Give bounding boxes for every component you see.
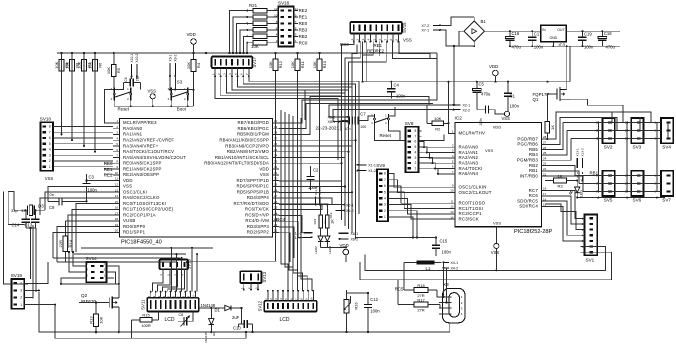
svg-text:SV10: SV10 xyxy=(40,116,52,121)
svg-text:SV3: SV3 xyxy=(633,144,642,149)
junction dots R16/C12 xyxy=(345,292,369,333)
svg-text:C8: C8 xyxy=(179,313,184,317)
svg-text:SV8: SV8 xyxy=(405,121,414,126)
svg-text:1: 1 xyxy=(415,166,417,170)
junction dots power rails xyxy=(473,30,603,47)
node X1-1 X1-2 terminal pins xyxy=(357,164,376,174)
svg-text:22R: 22R xyxy=(58,240,63,247)
svg-text:SV17: SV17 xyxy=(252,56,257,67)
svg-text:16: 16 xyxy=(543,197,547,201)
diode D1 1N4148 xyxy=(199,303,242,313)
svg-text:4: 4 xyxy=(49,148,51,152)
svg-text:PGC/RB6: PGC/RB6 xyxy=(517,142,538,147)
wire SV9 to IC2 lower pins xyxy=(356,174,455,238)
svg-text:X6-2: X6-2 xyxy=(351,238,359,242)
svg-text:2uF: 2uF xyxy=(232,315,240,320)
svg-text:10K: 10K xyxy=(186,62,191,69)
potentiometer R16 xyxy=(344,290,359,322)
supply VDD symbol bottom-mid xyxy=(340,243,349,262)
svg-text:22: 22 xyxy=(543,167,547,171)
capacitor C9 100n xyxy=(48,192,70,210)
wire SV14 nets xyxy=(61,252,119,284)
svg-text:SDI/RC4: SDI/RC4 xyxy=(519,204,538,209)
wire IC2 RB bus staircase xyxy=(548,99,651,191)
svg-text:22-23-2021: 22-23-2021 xyxy=(316,126,340,131)
node X4-1 X4-2 terminal pins xyxy=(443,261,459,271)
svg-text:10K: 10K xyxy=(268,61,273,68)
svg-text:PGD/RB7: PGD/RB7 xyxy=(517,136,538,141)
svg-text:16: 16 xyxy=(115,206,119,210)
svg-text:100n: 100n xyxy=(370,309,380,314)
node R22 R19 designators xyxy=(313,212,333,224)
wire IC2 RC to SV1 xyxy=(548,191,581,241)
svg-text:100: 100 xyxy=(360,125,366,129)
svg-text:RD2/SPP2: RD2/SPP2 xyxy=(247,230,270,235)
wire SV18 to SV11 links xyxy=(152,277,184,292)
resistor R11 10K xyxy=(290,53,305,255)
svg-text:X7-2: X7-2 xyxy=(422,24,430,28)
svg-text:RB5: RB5 xyxy=(529,147,538,152)
svg-text:7: 7 xyxy=(415,134,417,138)
svg-text:SV2: SV2 xyxy=(604,144,613,149)
junction dots SV8 bus xyxy=(412,146,439,238)
svg-text:100R: 100R xyxy=(141,323,151,328)
connector SV3 xyxy=(625,118,644,149)
svg-text:RA0/AN0: RA0/AN0 xyxy=(459,145,479,150)
svg-text:X1-1: X1-1 xyxy=(368,164,376,168)
wire regulator gnd to mid column xyxy=(569,46,571,81)
svg-text:VSS: VSS xyxy=(45,176,54,181)
svg-text:10K: 10K xyxy=(98,316,103,323)
inductor L1 xyxy=(404,260,442,271)
svg-text:10K: 10K xyxy=(290,61,295,68)
wire IC1 lower-left nets xyxy=(48,174,113,262)
connector SV16 xyxy=(274,1,308,47)
junction dots switch bus xyxy=(130,105,189,107)
svg-text:X13-1: X13-1 xyxy=(576,148,580,157)
node X2-1 X2-2 terminal pins xyxy=(453,104,471,113)
svg-text:RC6: RC6 xyxy=(529,193,539,198)
svg-text:PGM/RB3: PGM/RB3 xyxy=(517,158,539,163)
svg-text:VSS: VSS xyxy=(260,172,269,177)
svg-text:RD4/SPP4: RD4/SPP4 xyxy=(247,195,270,200)
svg-text:RA4/T0CKI: RA4/T0CKI xyxy=(459,166,483,171)
svg-text:RC2/CCP1: RC2/CCP1 xyxy=(459,211,483,216)
node X8-1 X8-2 terminal pins xyxy=(328,115,349,124)
capacitor C3 100n xyxy=(82,174,97,196)
svg-text:1: 1 xyxy=(384,215,386,219)
svg-text:RC5: RC5 xyxy=(395,287,404,292)
svg-text:RC7/RX/DT/SDO: RC7/RX/DT/SDO xyxy=(233,201,269,206)
op-amp U1: microcontroller IC1 PIC18F4550-40 DIP body xyxy=(113,119,279,246)
connector SV17 xyxy=(212,56,257,68)
svg-text:27R: 27R xyxy=(417,308,424,313)
svg-text:RB1: RB1 xyxy=(590,171,599,176)
svg-text:C6: C6 xyxy=(124,77,128,81)
svg-text:RB1: RB1 xyxy=(529,168,538,173)
wire SV15 fanout xyxy=(342,42,438,93)
svg-text:RB3/AN9/CCP2/VPO: RB3/AN9/CCP2/VPO xyxy=(225,143,269,148)
junction dots Q2 xyxy=(95,301,120,333)
svg-text:B1: B1 xyxy=(481,19,487,24)
wire R2 nets xyxy=(449,82,455,134)
svg-text:RC0/T1OSO: RC0/T1OSO xyxy=(459,201,486,206)
svg-text:Q1: Q1 xyxy=(533,97,539,102)
capacitor C20 100n xyxy=(477,106,495,126)
diode bridge B1 xyxy=(459,17,489,46)
svg-text:20: 20 xyxy=(115,229,119,233)
svg-text:RE0/AN5/CK1SPP: RE0/AN5/CK1SPP xyxy=(123,161,162,166)
svg-text:SV15: SV15 xyxy=(402,22,407,33)
junction dots mid bundle xyxy=(340,139,356,248)
svg-text:LCD: LCD xyxy=(280,317,290,323)
svg-text:2: 2 xyxy=(415,161,417,165)
wire left edge runs xyxy=(4,191,49,298)
supply VDD symbol mid-right xyxy=(489,64,498,82)
svg-text:RC6/TX/CK: RC6/TX/CK xyxy=(245,207,269,212)
svg-text:X10-2: X10-2 xyxy=(135,54,139,63)
svg-text:2: 2 xyxy=(20,296,22,300)
svg-text:C9: C9 xyxy=(49,205,55,210)
svg-text:PIC18f252-28P: PIC18f252-28P xyxy=(514,229,553,235)
svg-text:SV1: SV1 xyxy=(586,258,595,263)
svg-text:RB4: RB4 xyxy=(529,152,538,157)
svg-text:X13-2: X13-2 xyxy=(581,148,585,157)
connector SV7 xyxy=(654,171,673,203)
resistor R3 1K xyxy=(548,173,570,188)
wire X9 to R4 bottom row xyxy=(170,76,194,90)
capacitor C13 33p xyxy=(21,208,40,228)
capacitor C2 100n xyxy=(306,166,319,190)
node X9-1 X9-2 terminal pins xyxy=(168,54,177,77)
junction dot Q1 drain rail xyxy=(566,45,568,47)
wire SV19 fanout xyxy=(28,225,55,305)
svg-text:5: 5 xyxy=(384,190,386,194)
connector SV2 xyxy=(596,118,615,149)
svg-text:18: 18 xyxy=(115,217,119,221)
svg-text:RA6/OSC2/CLKO: RA6/OSC2/CLKO xyxy=(123,195,160,200)
svg-text:RC4/D-/VM: RC4/D-/VM xyxy=(245,218,269,223)
svg-text:RB6/KBI2/PGC: RB6/KBI2/PGC xyxy=(237,126,269,131)
svg-text:R22: R22 xyxy=(313,218,317,224)
svg-text:R10: R10 xyxy=(322,60,327,68)
voltage regulator IC3 xyxy=(541,25,567,47)
svg-text:R21: R21 xyxy=(249,3,258,8)
wire RE stubs xyxy=(104,163,113,175)
junction dots crystal xyxy=(25,209,37,229)
capacitor C12 100n xyxy=(364,297,380,315)
svg-text:R18: R18 xyxy=(417,283,425,288)
svg-text:10K: 10K xyxy=(76,61,81,68)
junction dots R2 xyxy=(448,81,450,125)
svg-text:RE1: RE1 xyxy=(299,15,308,20)
capacitor C21 10n xyxy=(338,117,352,131)
diode D2 1N4148 xyxy=(204,308,214,343)
svg-text:RA5/AN4/SSVHLVDIN/C2OUT: RA5/AN4/SSVHLVDIN/C2OUT xyxy=(123,155,186,160)
svg-text:R11: R11 xyxy=(300,60,305,68)
svg-text:C16: C16 xyxy=(512,31,520,36)
svg-text:SV16: SV16 xyxy=(278,1,290,6)
wire trimmer net xyxy=(178,312,193,322)
wire IC1 RB rows to right bundle xyxy=(279,53,437,262)
svg-text:RC0: RC0 xyxy=(299,40,308,45)
svg-text:11: 11 xyxy=(115,177,118,181)
node X6-1 X6-2 terminal pins xyxy=(339,232,359,242)
wire verticals to SV11 xyxy=(171,248,197,292)
svg-text:IC3: IC3 xyxy=(559,43,566,48)
junction dots SV14 xyxy=(60,251,120,285)
svg-text:OSC2/CLKOUT: OSC2/CLKOUT xyxy=(459,190,492,195)
wire regulator output xyxy=(566,30,620,32)
svg-text:VDD: VDD xyxy=(259,166,269,171)
svg-text:RB7/KBI3/PGD: RB7/KBI3/PGD xyxy=(237,120,269,125)
svg-text:X11-2: X11-2 xyxy=(318,187,322,195)
node X12-1 X12-2 terminal pins xyxy=(292,231,312,240)
svg-text:470u: 470u xyxy=(481,92,491,97)
capacitor C15 100n xyxy=(432,238,452,257)
wire mid vertical bundle xyxy=(342,42,363,239)
svg-text:X8-2: X8-2 xyxy=(328,115,336,119)
svg-text:33p: 33p xyxy=(11,208,18,213)
svg-text:RA2/AN2: RA2/AN2 xyxy=(459,155,479,160)
node X7-1 X7-2 terminal pins xyxy=(422,24,442,33)
svg-text:OSC1/CLKI: OSC1/CLKI xyxy=(123,189,147,194)
svg-text:C19: C19 xyxy=(584,31,592,36)
svg-text:4: 4 xyxy=(415,150,417,154)
svg-text:17: 17 xyxy=(115,211,119,215)
ground VSS symbol bottom-mid xyxy=(491,227,500,255)
svg-text:RA5/AN4: RA5/AN4 xyxy=(459,171,479,176)
wire SV18 pin drops xyxy=(159,269,184,276)
svg-text:C7: C7 xyxy=(360,111,366,116)
svg-text:100n: 100n xyxy=(584,44,594,49)
wire C1 to VSS xyxy=(507,108,509,111)
wire 1K top rail xyxy=(279,204,344,206)
capacitor C19 100n xyxy=(578,31,594,49)
svg-text:15: 15 xyxy=(543,203,547,207)
wire SV5-7 tier lines xyxy=(575,175,657,191)
svg-text:R12: R12 xyxy=(278,60,283,68)
svg-text:19: 19 xyxy=(115,223,119,227)
wire LED feet xyxy=(321,241,346,247)
wire SV10 to IC1 port A rows xyxy=(56,126,113,166)
node X10-1 X10-2 terminal pins xyxy=(130,54,139,78)
svg-text:X4-1: X4-1 xyxy=(451,261,459,265)
wire C10/D1 net xyxy=(239,308,253,332)
svg-text:RE1: RE1 xyxy=(374,43,383,48)
svg-text:RD6/SPP6/P1C: RD6/SPP6/P1C xyxy=(237,184,270,189)
wire SV12 pin tops xyxy=(264,290,314,301)
svg-text:13: 13 xyxy=(115,188,119,192)
svg-text:VDD: VDD xyxy=(187,32,196,37)
svg-text:3: 3 xyxy=(20,289,22,293)
resistor R5 10K xyxy=(106,53,121,89)
svg-text:RC3/SCK: RC3/SCK xyxy=(459,216,479,221)
svg-text:RA1/AN1: RA1/AN1 xyxy=(459,150,479,155)
svg-text:SDO/RC5: SDO/RC5 xyxy=(517,198,538,203)
svg-text:IC2: IC2 xyxy=(455,116,463,122)
svg-text:RC0/T1OSO/T13CKI: RC0/T1OSO/T13CKI xyxy=(123,201,166,206)
svg-text:SV11: SV11 xyxy=(141,299,146,310)
svg-text:LED: LED xyxy=(580,190,584,197)
connector SV9 xyxy=(376,163,391,221)
junction dots D1/D2 xyxy=(210,307,242,333)
capacitor C17 100n xyxy=(528,31,544,49)
junction dots mid lines xyxy=(495,269,497,271)
junction dots tier lines xyxy=(597,121,628,192)
svg-text:10K: 10K xyxy=(64,61,69,68)
svg-text:R15: R15 xyxy=(142,313,150,318)
wire X7 to bridge xyxy=(440,17,474,46)
svg-text:SV13: SV13 xyxy=(262,271,267,282)
trimmer capacitor C8 xyxy=(179,313,191,327)
svg-text:Reset: Reset xyxy=(118,107,130,112)
connector SV18 xyxy=(160,259,192,270)
wire bottom bus A xyxy=(39,292,450,332)
svg-text:RB2: RB2 xyxy=(529,163,538,168)
svg-text:RA0/AN0: RA0/AN0 xyxy=(123,126,143,131)
wire R15 net xyxy=(132,312,159,339)
wire switch bottom links xyxy=(131,101,188,107)
svg-text:R4: R4 xyxy=(196,62,201,68)
svg-text:X9-1: X9-1 xyxy=(168,54,172,61)
svg-text:10K: 10K xyxy=(312,61,317,68)
svg-text:10: 10 xyxy=(274,13,278,17)
svg-text:1: 1 xyxy=(20,303,22,307)
svg-text:C2: C2 xyxy=(313,168,319,173)
junction dots SV19 xyxy=(38,289,56,305)
switch S1 Reset (IC2) xyxy=(371,114,392,139)
svg-text:100n: 100n xyxy=(534,44,544,49)
svg-text:6: 6 xyxy=(415,140,417,144)
svg-text:VDD: VDD xyxy=(493,124,502,129)
resistor R2 10K xyxy=(427,116,449,131)
svg-text:VDD: VDD xyxy=(123,178,133,183)
svg-text:RA1/AN1: RA1/AN1 xyxy=(123,132,143,137)
svg-text:0n: 0n xyxy=(50,192,54,197)
svg-text:X9-2: X9-2 xyxy=(174,54,178,61)
junction dots 1K rail xyxy=(315,203,329,205)
svg-text:Q2: Q2 xyxy=(81,293,88,298)
wire Q1 gate to R1 xyxy=(546,94,548,122)
resistor R13 10K xyxy=(88,314,103,332)
node X5-1 X5-2 terminal pins xyxy=(336,203,354,213)
junction dots LED row xyxy=(576,179,658,198)
junction dots USB xyxy=(442,261,447,303)
svg-text:IN: IN xyxy=(542,28,546,32)
svg-text:4: 4 xyxy=(384,197,386,201)
wire R21 staircase to VDD rail xyxy=(230,11,248,53)
connector SV6 xyxy=(625,171,644,203)
wire R1 to RB7 row xyxy=(546,138,548,140)
capacitor C16 470u xyxy=(506,31,522,49)
connector SV4 xyxy=(654,118,673,149)
wire SV feeder verticals xyxy=(598,112,668,191)
capacitor C14 33p xyxy=(11,208,30,228)
junction dots lower-left xyxy=(85,179,87,202)
svg-text:X1-2: X1-2 xyxy=(368,169,376,173)
LED2 LED3 xyxy=(314,236,332,254)
wire R16/C12 net xyxy=(347,290,369,332)
svg-text:RB1/AN10/INT1/SCK/SCL: RB1/AN10/INT1/SCK/SCL xyxy=(215,155,270,160)
junction dots R21 rail xyxy=(228,52,248,54)
svg-text:R17: R17 xyxy=(417,297,425,302)
wire R5/S2 to IC1 MCLR xyxy=(105,84,115,123)
wire X2 links xyxy=(329,105,454,123)
svg-text:R16: R16 xyxy=(354,302,359,310)
LED D3 xyxy=(569,187,583,197)
svg-text:8: 8 xyxy=(415,129,417,133)
connector SV14 xyxy=(81,256,113,282)
svg-text:VSS: VSS xyxy=(148,89,157,94)
wire long mid line xyxy=(365,255,606,271)
svg-text:RA3/AN3: RA3/AN3 xyxy=(459,161,479,166)
svg-text:MCLR/VPP/RE3: MCLR/VPP/RE3 xyxy=(123,120,157,125)
junction dots X9 row xyxy=(169,89,195,91)
svg-text:VUSB: VUSB xyxy=(123,218,135,223)
svg-text:C15: C15 xyxy=(440,238,448,243)
ground VSS symbol mid xyxy=(502,111,511,121)
supply VDD symbol top-left xyxy=(187,32,197,59)
connector SV5 xyxy=(596,171,615,203)
wire C5/C20 gnd xyxy=(477,92,505,114)
resistor R19 1K xyxy=(326,205,335,237)
svg-text:Reset: Reset xyxy=(380,133,392,138)
capacitor C18 470u xyxy=(598,31,616,49)
svg-text:X8-1: X8-1 xyxy=(328,120,336,124)
wire resistor bank drops to port bus xyxy=(62,71,96,152)
svg-text:VSS: VSS xyxy=(485,148,493,153)
connector SV13 xyxy=(240,271,267,283)
svg-text:RB2: RB2 xyxy=(299,34,308,39)
svg-text:S3: S3 xyxy=(177,79,183,84)
svg-text:SV19: SV19 xyxy=(11,273,23,278)
svg-text:100n: 100n xyxy=(479,118,483,126)
svg-text:R3: R3 xyxy=(557,184,563,189)
capacitor C4 100n xyxy=(387,82,406,99)
svg-text:RB3: RB3 xyxy=(299,28,308,33)
junction dot bridge gnd xyxy=(453,45,455,106)
svg-text:C12: C12 xyxy=(370,297,378,302)
svg-text:C4: C4 xyxy=(394,83,400,88)
connector SV11 xyxy=(141,298,199,312)
resistor R4 10K xyxy=(186,59,201,106)
svg-text:470u: 470u xyxy=(512,44,522,49)
resistor R10 10K xyxy=(312,53,327,205)
svg-text:SV14: SV14 xyxy=(86,256,98,261)
svg-text:17: 17 xyxy=(543,192,547,196)
wire regulator gnd drop xyxy=(552,42,554,47)
svg-text:RC1/T1OSI/CCP2/UOE): RC1/T1OSI/CCP2/UOE) xyxy=(123,207,174,212)
svg-text:RE1/AN6/CK2SPP: RE1/AN6/CK2SPP xyxy=(123,166,162,171)
svg-text:SV18: SV18 xyxy=(187,259,192,270)
svg-text:10K: 10K xyxy=(106,67,111,74)
svg-text:1K: 1K xyxy=(550,125,555,130)
resistor R22 1K xyxy=(319,205,328,237)
wire SV17 pin drops xyxy=(211,68,250,77)
wire bridge + output to regulator xyxy=(489,30,541,32)
node X11 pins xyxy=(314,187,322,205)
svg-text:23: 23 xyxy=(543,162,547,166)
svg-text:RE0RE2: RE0RE2 xyxy=(367,49,385,54)
resistor R15 100R xyxy=(132,313,159,328)
wire SV11 pin tops xyxy=(147,291,196,298)
svg-text:10K: 10K xyxy=(434,116,441,121)
svg-text:100n: 100n xyxy=(510,104,520,109)
svg-text:INT/RB0: INT/RB0 xyxy=(520,173,539,178)
svg-text:3: 3 xyxy=(415,156,417,160)
wire bridge down feed xyxy=(453,46,455,105)
